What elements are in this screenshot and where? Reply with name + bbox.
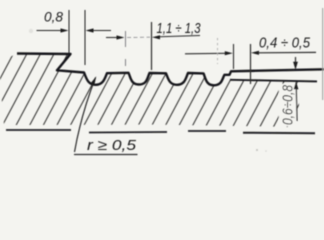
svg-text:0,6÷0,8: 0,6÷0,8 [280,84,297,125]
svg-text:r ≥ 0,5: r ≥ 0,5 [87,137,137,154]
svg-text:0,4 ÷ 0,5: 0,4 ÷ 0,5 [259,35,311,52]
svg-text:0,8: 0,8 [44,8,63,24]
svg-text:1,1 ÷ 1,3: 1,1 ÷ 1,3 [157,20,201,37]
